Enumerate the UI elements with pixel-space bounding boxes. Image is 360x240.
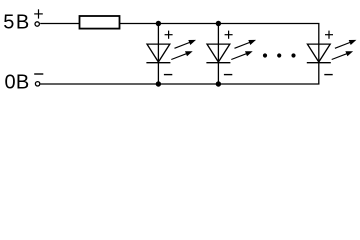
LED VDn light arrow upper [335, 42, 353, 49]
LED VD2 light arrow lower [231, 53, 248, 60]
LED VDn cathode bar [307, 62, 331, 64]
LED VD1 anode + label [165, 34, 173, 36]
polarity - at 0V terminal [34, 73, 43, 75]
svg-text:5: 5 [3, 11, 14, 33]
LED VD2 cathode bar [206, 62, 230, 64]
wire top: terminal to R1 [40, 23, 79, 25]
wire branch VD1 vertical [157, 24, 159, 85]
svg-text:0: 0 [5, 71, 16, 93]
LED VDn triangle [307, 44, 330, 62]
LED VD1 light arrow lower [171, 53, 188, 60]
LED VD1 cathode - label [164, 74, 172, 76]
svg-text:В: В [16, 71, 29, 93]
LED VDn cathode - label [324, 74, 332, 76]
LED VD2 triangle [207, 44, 230, 62]
ellipsis dot 2 (more LEDs) [277, 53, 281, 57]
LED VD2 anode + label [225, 34, 233, 36]
junction node top of VD2 [216, 21, 221, 26]
polarity + at 5V terminal [34, 13, 43, 15]
junction node bottom of VD1 [156, 81, 161, 86]
ellipsis dot 1 (more LEDs) [263, 53, 267, 57]
terminal 0V [35, 82, 39, 86]
wire branch VD2 vertical [217, 24, 219, 85]
LED VD1 triangle [147, 44, 170, 62]
wire branch VDn vertical [318, 24, 320, 85]
ellipsis dot 3 (more LEDs) [291, 53, 295, 57]
wire bottom: 0V rail [40, 83, 319, 85]
wire top: R1 to right corner [120, 23, 320, 25]
junction node top of VD1 [156, 21, 161, 26]
LED VD1 cathode bar [146, 62, 170, 64]
resistor R1 [80, 16, 120, 29]
LED VDn light arrow lower [332, 53, 349, 60]
LED VD2 cathode - label [224, 74, 232, 76]
svg-text:В: В [16, 11, 29, 33]
LED VDn anode + label [325, 34, 333, 36]
terminal +5V [35, 22, 39, 26]
junction node bottom of VD2 [216, 81, 221, 86]
LED VD2 light arrow upper [235, 42, 253, 49]
LED VD1 light arrow upper [175, 42, 193, 49]
